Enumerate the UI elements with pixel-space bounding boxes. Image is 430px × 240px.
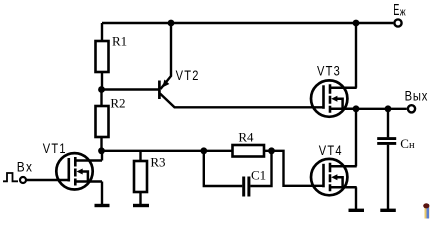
svg-text:Вых: Вых [405, 89, 428, 104]
svg-text:E: E [393, 2, 399, 19]
svg-text:VT4: VT4 [319, 142, 343, 159]
svg-text:R2: R2 [110, 96, 125, 111]
svg-text:VT1: VT1 [43, 140, 67, 157]
svg-text:R1: R1 [112, 34, 127, 49]
svg-text:VT3: VT3 [317, 62, 341, 79]
svg-text:C1: C1 [251, 168, 266, 183]
svg-text:Вх: Вх [17, 159, 33, 175]
svg-text:R3: R3 [150, 155, 165, 170]
svg-text:R4: R4 [238, 129, 254, 144]
svg-text:VT2: VT2 [176, 66, 200, 83]
svg-text:ж: ж [400, 7, 406, 19]
